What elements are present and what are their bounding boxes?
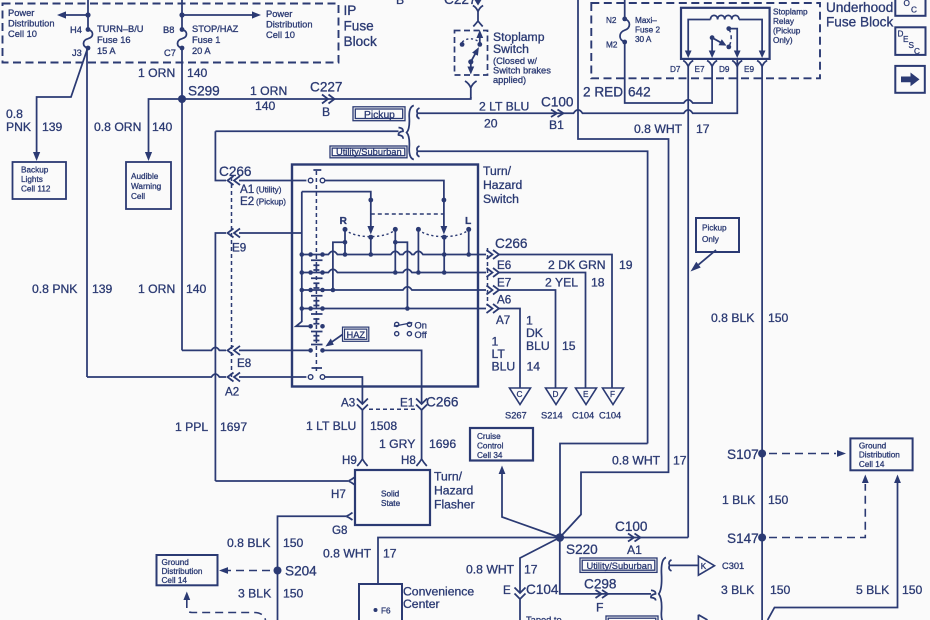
svg-text:Distribution: Distribution xyxy=(266,20,313,30)
svg-text:B1: B1 xyxy=(549,118,564,132)
svg-text:C298: C298 xyxy=(584,577,617,592)
wire battery feed to STOP/HAZ fuse xyxy=(181,0,183,30)
connector C266 pin E8 chevrons xyxy=(228,346,241,355)
svg-text:1 ORN: 1 ORN xyxy=(138,66,175,80)
svg-text:H7: H7 xyxy=(331,488,346,501)
stoplamp switch arrow out xyxy=(465,62,477,99)
connector C266 pin A2 chevrons xyxy=(228,373,241,382)
svg-text:15: 15 xyxy=(562,339,576,353)
utility/suburban label box (cut, bottom edge) xyxy=(606,616,658,620)
svg-text:J3: J3 xyxy=(72,48,82,58)
relay coil to E9 xyxy=(739,20,766,59)
svg-text:C227: C227 xyxy=(444,0,477,7)
pin E7 label xyxy=(497,277,511,290)
svg-text:Pickup: Pickup xyxy=(364,110,395,121)
backup lights cell 112 box xyxy=(13,162,67,199)
S147 ground reference (dashed) xyxy=(769,475,869,538)
splice S299 xyxy=(178,84,220,104)
contact row A6 xyxy=(300,287,487,293)
turn/hazard switch label xyxy=(483,164,522,206)
wire 2 DK GRN 19 label xyxy=(548,258,633,272)
svg-text:Power: Power xyxy=(266,9,292,19)
svg-text:0.8: 0.8 xyxy=(6,107,23,121)
contact row A7 xyxy=(300,306,487,311)
arrow into audible warning xyxy=(145,152,152,161)
svg-text:Cruise: Cruise xyxy=(477,432,501,441)
pin A7 label xyxy=(496,314,510,327)
wire feed to maxi-fuse xyxy=(624,0,626,19)
pin H4 xyxy=(70,25,82,35)
wire S220 to cruise control xyxy=(499,466,560,538)
wire 0.8 PNK 139 label xyxy=(6,107,63,134)
underhood fuse block (dashed box) xyxy=(591,3,820,78)
connector C100 A1 xyxy=(615,519,648,557)
relay blade xyxy=(712,38,731,50)
svg-text:Distribution: Distribution xyxy=(859,451,900,460)
pin D9 label xyxy=(719,65,730,74)
svg-text:Control: Control xyxy=(477,442,504,451)
svg-text:150: 150 xyxy=(768,493,789,507)
svg-text:Fuse: Fuse xyxy=(344,19,374,34)
wire 1 DK BLU 15 to D xyxy=(499,290,556,388)
connector C104 label xyxy=(526,582,559,597)
C266 connector dashed line (right) xyxy=(487,248,489,306)
pin H9 socket xyxy=(342,454,368,467)
wire 3 BLK 150 label (right) xyxy=(721,583,791,597)
svg-text:S267: S267 xyxy=(505,411,527,421)
svg-text:C7: C7 xyxy=(164,48,176,58)
L lamp label xyxy=(465,216,471,227)
svg-text:State: State xyxy=(381,499,401,508)
nav icon arrow xyxy=(895,66,925,93)
svg-text:20 A: 20 A xyxy=(192,46,211,56)
svg-text:PNK: PNK xyxy=(6,120,31,134)
wire G8 ground to S204 xyxy=(278,516,347,620)
svg-text:D7: D7 xyxy=(670,65,681,74)
svg-text:B8: B8 xyxy=(163,25,174,35)
svg-text:Fuse 2: Fuse 2 xyxy=(635,26,660,35)
svg-text:Cell 10: Cell 10 xyxy=(266,30,295,40)
svg-text:150: 150 xyxy=(283,536,304,550)
svg-text:1 LT BLU: 1 LT BLU xyxy=(306,419,356,433)
svg-text:Utility/Suburban: Utility/Suburban xyxy=(587,561,653,571)
pin E label xyxy=(503,584,511,597)
pin A6 label xyxy=(497,294,511,307)
connector C227 xyxy=(310,80,343,120)
svg-text:Audible: Audible xyxy=(131,172,159,181)
pin H7 socket xyxy=(331,477,355,501)
svg-text:F: F xyxy=(610,390,615,399)
svg-text:0.8 PNK: 0.8 PNK xyxy=(32,282,77,296)
connector D terminal to S214 xyxy=(541,388,567,421)
svg-text:2 DK GRN: 2 DK GRN xyxy=(548,258,606,272)
wire 2 RED 642 label xyxy=(583,85,651,100)
svg-text:Cell 10: Cell 10 xyxy=(8,29,37,39)
svg-text:(Pickup: (Pickup xyxy=(773,27,801,36)
svg-text:STOP/HAZ: STOP/HAZ xyxy=(192,24,239,34)
svg-text:Warning: Warning xyxy=(131,182,162,191)
maxi-fuse value label xyxy=(635,16,660,44)
svg-text:C266: C266 xyxy=(495,236,528,251)
pin E9 label xyxy=(744,65,754,74)
svg-text:0.8 BLK: 0.8 BLK xyxy=(711,311,754,325)
E8 contact row xyxy=(308,348,421,387)
wire 0.8 BLK 150 label xyxy=(711,311,789,325)
node to Power Distribution (left arrow) xyxy=(57,11,91,18)
svg-text:Fuse Block: Fuse Block xyxy=(826,15,893,30)
wire 2 YEL 18 to E xyxy=(499,273,586,389)
relay pin sockets xyxy=(683,61,767,68)
ground distribution cell 14 box (left) xyxy=(157,555,218,585)
pin A3 label xyxy=(341,397,355,410)
A1/E2 contact row xyxy=(308,178,446,226)
wire A1/E2 into switch xyxy=(239,180,306,182)
wire utility/suburban bus xyxy=(422,151,648,443)
pin E2 (Pickup) label xyxy=(240,195,286,208)
svg-text:E6: E6 xyxy=(497,259,511,272)
svg-text:BLU: BLU xyxy=(526,339,550,353)
svg-text:K: K xyxy=(701,562,707,571)
svg-text:140: 140 xyxy=(255,99,276,113)
svg-text:Ground: Ground xyxy=(162,558,190,567)
svg-text:140: 140 xyxy=(186,282,207,296)
svg-text:Cell: Cell xyxy=(131,192,145,201)
svg-text:Switch: Switch xyxy=(493,42,529,56)
svg-text:F: F xyxy=(596,601,603,615)
wire 2 YEL 18 label xyxy=(545,276,605,290)
svg-text:Power: Power xyxy=(8,8,34,18)
IP fuse block label xyxy=(344,3,377,49)
svg-text:14: 14 xyxy=(527,360,541,374)
fuse 16 value label xyxy=(97,24,144,56)
R rotor dotted arc xyxy=(345,229,395,254)
C266 bottom dashed connector line xyxy=(369,408,416,410)
wire 1 BLK 150 label xyxy=(722,493,789,507)
connector C terminal to S267 xyxy=(505,388,531,421)
svg-text:Flasher: Flasher xyxy=(434,498,475,512)
C227 top connector symbol xyxy=(473,0,483,27)
svg-text:E7: E7 xyxy=(497,277,511,290)
wire TURN fuse output down left side xyxy=(86,48,88,377)
svg-text:Stoplamp: Stoplamp xyxy=(773,8,808,17)
relay moving contact to E7 xyxy=(709,35,716,58)
node to Power Distribution (right arrow) xyxy=(179,11,261,18)
wire 1 LT BLU 14 to C xyxy=(499,309,520,389)
pin E6 label xyxy=(497,259,511,272)
S204 ground reference (dashed) xyxy=(219,567,270,574)
svg-text:Turn/: Turn/ xyxy=(483,164,512,178)
svg-text:A6: A6 xyxy=(497,294,511,307)
fuse F1 STOP/HAZ xyxy=(178,27,187,50)
IP fuse block (dashed box) xyxy=(3,4,339,63)
pickup only callout box xyxy=(696,218,739,252)
svg-text:H9: H9 xyxy=(342,454,357,467)
nav icon DESC xyxy=(895,27,925,56)
svg-text:E8: E8 xyxy=(237,357,251,370)
pin E1 label xyxy=(400,397,414,410)
svg-text:Underhood: Underhood xyxy=(826,0,893,15)
wire S220 to convenience center xyxy=(378,538,560,585)
pickup branch label box xyxy=(353,107,405,121)
svg-text:19: 19 xyxy=(619,258,633,272)
svg-text:Switch: Switch xyxy=(483,192,519,206)
svg-text:A3: A3 xyxy=(341,397,355,410)
wire STOP fuse to E8 row xyxy=(181,99,183,350)
maxi-fuse 2 30A xyxy=(620,17,629,45)
contact row E7 xyxy=(300,269,487,275)
svg-text:150: 150 xyxy=(770,583,791,597)
svg-text:2 RED: 2 RED xyxy=(583,85,623,100)
underhood fuse block label xyxy=(826,0,893,30)
svg-text:Fuse 16: Fuse 16 xyxy=(97,35,131,45)
HAZ arrow xyxy=(325,335,342,347)
L contact drops xyxy=(393,227,471,311)
hook start pickup bus xyxy=(417,108,422,119)
pin E9 label xyxy=(232,242,246,255)
svg-text:E1: E1 xyxy=(400,397,414,410)
svg-text:E: E xyxy=(583,390,589,399)
svg-text:B: B xyxy=(396,0,404,7)
svg-text:5 BLK: 5 BLK xyxy=(856,583,889,597)
wire 0.8 BLK 150 label (S204) xyxy=(227,536,304,550)
connector F terminal to C104 xyxy=(599,388,624,421)
svg-text:Cell 14: Cell 14 xyxy=(162,576,188,585)
stoplamp switch contacts xyxy=(460,39,482,47)
svg-text:E9: E9 xyxy=(232,242,246,255)
pin J3 xyxy=(72,48,82,58)
svg-text:139: 139 xyxy=(42,120,63,134)
svg-text:C301: C301 xyxy=(722,561,744,571)
wire S220 to C100 A1 xyxy=(560,537,688,539)
svg-text:Center: Center xyxy=(403,597,440,611)
svg-text:N2: N2 xyxy=(606,16,617,25)
connector C266 pin E9 chevrons xyxy=(228,229,241,238)
wire 0.8 WHT 17 label xyxy=(634,122,710,136)
stoplamp switch (dashed box) xyxy=(455,31,488,76)
brace grouping pickup/utility xyxy=(407,106,414,160)
connector C266 label (bottom) xyxy=(426,395,459,410)
svg-text:E7: E7 xyxy=(695,65,705,74)
C227 top stub (cut text) xyxy=(396,0,477,7)
svg-text:C266: C266 xyxy=(426,395,459,410)
svg-text:17: 17 xyxy=(696,122,710,136)
svg-text:S220: S220 xyxy=(566,542,598,557)
svg-text:Block: Block xyxy=(344,34,377,49)
wire 1 PPL into H7 xyxy=(215,480,348,482)
svg-text:150: 150 xyxy=(768,311,789,325)
svg-text:D: D xyxy=(553,390,559,399)
svg-text:17: 17 xyxy=(524,563,538,577)
wire 1 ORN 140 label right xyxy=(250,84,287,113)
svg-text:Off: Off xyxy=(415,330,428,340)
svg-text:S299: S299 xyxy=(188,84,220,99)
stoplamp relay label xyxy=(773,8,808,46)
wire E9 BLK long vertical xyxy=(761,67,763,620)
svg-text:2 LT BLU: 2 LT BLU xyxy=(479,100,529,114)
svg-text:(Utility): (Utility) xyxy=(256,186,282,195)
svg-text:B: B xyxy=(322,105,330,119)
svg-text:F6: F6 xyxy=(381,607,391,616)
svg-text:1508: 1508 xyxy=(370,419,397,433)
connector terminal (cut, bottom edge) xyxy=(698,615,707,620)
svg-text:E2: E2 xyxy=(240,195,254,208)
svg-text:E9: E9 xyxy=(744,65,754,74)
svg-text:S214: S214 xyxy=(541,411,563,421)
pin E8 label xyxy=(237,357,251,370)
wire S299 to audible warning branch xyxy=(149,99,183,152)
switch actuator dashed line xyxy=(313,170,321,372)
svg-text:Only: Only xyxy=(702,235,720,244)
svg-text:1 ORN: 1 ORN xyxy=(138,282,175,296)
svg-text:1696: 1696 xyxy=(429,437,456,451)
wire E9 from switch to C266 xyxy=(215,233,302,481)
actuator link (dashed) xyxy=(371,213,444,215)
svg-text:C266: C266 xyxy=(219,164,252,179)
wire 5 BLK 150 ground lead xyxy=(768,475,901,620)
pin M2 xyxy=(606,41,618,50)
stoplamp switch arrow in xyxy=(476,30,483,44)
wire E8 into switch xyxy=(239,349,310,351)
audible warning cell box xyxy=(126,162,171,209)
wire 1 DK BLU 15 label xyxy=(526,314,576,354)
svg-text:E: E xyxy=(503,584,511,597)
svg-text:140: 140 xyxy=(152,120,173,134)
wire 1 ORN 140 label lower xyxy=(138,282,207,296)
pin H8 socket xyxy=(401,454,427,467)
svg-text:Hazard: Hazard xyxy=(434,484,473,498)
svg-text:Fuse 1: Fuse 1 xyxy=(192,35,220,45)
on/off legend xyxy=(394,321,427,340)
svg-text:C: C xyxy=(914,47,920,56)
svg-text:C227: C227 xyxy=(310,80,343,95)
wire 0.8 WHT 17 label (E C104) xyxy=(466,563,538,577)
svg-text:17: 17 xyxy=(383,547,397,561)
connector C266 label (right) xyxy=(495,236,528,251)
wire 2 DK GRN 19 to F xyxy=(499,255,612,389)
svg-text:0.8 BLK: 0.8 BLK xyxy=(227,536,270,550)
wire E8 row from S299 branch xyxy=(182,347,226,350)
svg-text:17: 17 xyxy=(673,454,687,468)
wire end hook (C298) xyxy=(651,590,656,600)
svg-text:0.8 WHT: 0.8 WHT xyxy=(634,122,683,136)
svg-text:C100: C100 xyxy=(541,95,574,110)
svg-text:C104: C104 xyxy=(572,411,594,421)
svg-text:A1: A1 xyxy=(627,543,642,557)
wire 0.8 PNK 139 label lower xyxy=(32,282,113,296)
svg-text:R: R xyxy=(340,216,348,227)
svg-text:Hazard: Hazard xyxy=(483,178,522,192)
svg-text:M2: M2 xyxy=(606,41,618,50)
svg-text:30 A: 30 A xyxy=(635,35,652,44)
svg-text:139: 139 xyxy=(92,282,113,296)
wire S299 to C227 xyxy=(182,97,471,99)
svg-text:C100: C100 xyxy=(615,519,648,534)
HAZ callout box xyxy=(343,327,369,341)
wire J3 to backup lights branch xyxy=(37,50,87,152)
svg-text:140: 140 xyxy=(187,66,208,80)
cruise control cell 34 box xyxy=(470,428,533,461)
svg-text:0.8 WHT: 0.8 WHT xyxy=(323,547,372,561)
brace grouping (bottom) xyxy=(659,558,666,620)
wire 2 LT BLU 20 bus xyxy=(422,60,737,113)
connector C266 pin A7 chevrons xyxy=(487,304,500,313)
svg-text:(Pickup): (Pickup) xyxy=(256,198,286,207)
utility/suburban branch label box xyxy=(330,146,407,158)
svg-text:3 BLK: 3 BLK xyxy=(238,587,271,601)
connector K terminal C301 xyxy=(698,556,744,575)
pin N2 xyxy=(606,16,617,25)
relay fixed contact to D9 xyxy=(726,26,740,58)
wire 1 LT BLU 1508 to H9 xyxy=(306,410,397,459)
svg-text:1 PPL: 1 PPL xyxy=(175,420,208,434)
wire D7 0.8 WHT 17 long vertical xyxy=(687,67,689,538)
svg-text:L: L xyxy=(465,216,471,227)
connector C100 B1 xyxy=(541,95,574,133)
C266 connector dashed line (left) xyxy=(231,177,233,381)
wire 1 ORN 140 label upper xyxy=(138,66,208,80)
wire STOP fuse output to S299 xyxy=(181,48,183,99)
wire 1 LT BLU 14 label xyxy=(492,335,541,374)
pin B8 xyxy=(163,25,174,35)
R lamp label xyxy=(340,216,348,227)
pin D7 label xyxy=(670,65,681,74)
svg-text:150: 150 xyxy=(902,583,923,597)
svg-text:Ground: Ground xyxy=(859,441,887,450)
svg-text:Utility/Suburban: Utility/Suburban xyxy=(336,147,402,157)
S107 ground reference (dashed) xyxy=(769,450,846,457)
relay coil to D7 xyxy=(685,20,711,59)
svg-text:Pickup: Pickup xyxy=(702,224,727,233)
pin A2 label xyxy=(225,386,239,399)
connector C266 pin A6 chevrons xyxy=(487,286,500,295)
svg-text:C: C xyxy=(517,390,523,399)
svg-text:DK: DK xyxy=(526,326,543,340)
svg-text:Distribution: Distribution xyxy=(8,19,55,29)
wire into C266 A1/E2 xyxy=(215,131,226,180)
svg-text:Relay: Relay xyxy=(773,17,795,26)
svg-text:D9: D9 xyxy=(719,65,730,74)
svg-text:150: 150 xyxy=(283,587,304,601)
relay coil xyxy=(711,15,740,19)
svg-text:Cell 14: Cell 14 xyxy=(859,460,885,469)
svg-text:S107: S107 xyxy=(727,447,759,462)
svg-text:(Closed w/: (Closed w/ xyxy=(493,56,537,66)
R contact drop left xyxy=(331,227,348,292)
wire utility bus to S220 xyxy=(560,444,648,538)
svg-text:0.8 WHT: 0.8 WHT xyxy=(466,563,515,577)
connector C266 pin A3 arrow out xyxy=(357,387,368,410)
svg-text:A2: A2 xyxy=(225,386,239,399)
connector C266 pin E1 arrow out xyxy=(416,387,427,410)
pin C7 xyxy=(164,48,176,58)
svg-text:Lights: Lights xyxy=(21,175,43,184)
wire from top feed via 0.8 WHT 17 xyxy=(560,0,669,538)
turn/hazard switch box xyxy=(292,165,478,387)
svg-text:1 BLK: 1 BLK xyxy=(722,493,755,507)
svg-text:C: C xyxy=(911,6,917,15)
connector C266 label (left) xyxy=(219,164,252,179)
svg-text:HAZ: HAZ xyxy=(347,330,366,340)
pin G8 socket xyxy=(332,513,353,537)
Power Distribution Cell 10 label (right) xyxy=(266,9,313,40)
stoplamp switch label xyxy=(493,30,551,85)
hook start utility bus xyxy=(417,146,422,157)
wire 2 LT BLU label xyxy=(479,100,529,131)
wire S220 to E C104 taped lead xyxy=(515,538,560,620)
svg-text:0.8 WHT: 0.8 WHT xyxy=(612,454,661,468)
svg-text:15 A: 15 A xyxy=(97,46,116,56)
wire S220 to C298 F xyxy=(560,538,651,594)
